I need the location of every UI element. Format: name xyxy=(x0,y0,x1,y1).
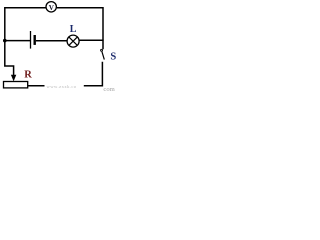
battery cell long plate (+) xyxy=(30,31,32,49)
wire top-left loop: top wire left segment xyxy=(5,8,46,41)
svg-text:com: com xyxy=(103,86,115,93)
svg-text:www.zxxk.co: www.zxxk.co xyxy=(47,84,77,89)
svg-text:V: V xyxy=(49,4,55,12)
rheostat wiper arrowhead xyxy=(11,75,16,82)
lamp X cross xyxy=(69,37,78,46)
wire rheostat to bottom (left solid segment) xyxy=(28,85,45,87)
switch blade (open) xyxy=(102,52,104,60)
wire battery to lamp xyxy=(36,40,67,42)
svg-text:S: S xyxy=(110,52,116,63)
wire left rail to rheostat arrow xyxy=(5,41,14,76)
switch S1 pivot circle xyxy=(101,49,103,51)
svg-text:L: L xyxy=(70,24,77,35)
lamp L1 circle xyxy=(67,35,79,47)
resistor R1 body box xyxy=(4,82,28,88)
wire middle left xyxy=(5,40,30,42)
svg-text:R: R xyxy=(24,69,32,80)
node A junction dot xyxy=(3,39,7,43)
battery cell short plate (-) xyxy=(34,35,36,45)
wire lamp to right rail xyxy=(79,39,103,41)
voltmeter V1 xyxy=(46,2,56,12)
wire switch lower terminal to bottom-right corner xyxy=(84,62,103,86)
wire top wire right segment xyxy=(57,8,103,49)
